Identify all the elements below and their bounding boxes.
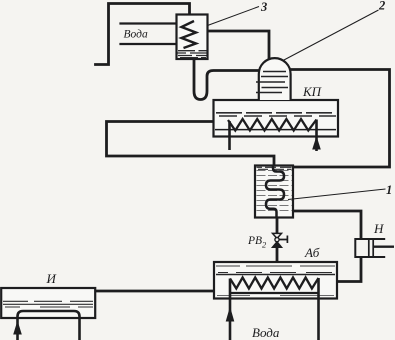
inverted-U tube in evaporator bbox=[18, 311, 80, 340]
arrow up into KP coil bbox=[312, 136, 321, 150]
svg-text:Вода: Вода bbox=[124, 29, 148, 41]
heat exchanger 3 (water-cooled condenser-rectifier) bbox=[177, 15, 208, 60]
coil left end stub pipe of KP bbox=[228, 121, 231, 150]
wire: pipe from valve to absorber top bbox=[276, 247, 279, 262]
arrow up into absorber coil bbox=[226, 307, 235, 322]
wire: vapor pipe from exchanger 3 right side into dome top bbox=[208, 31, 270, 60]
regulating valve PB2 bbox=[272, 233, 287, 247]
separator dome 2 on KP bbox=[256, 58, 291, 100]
leader line to label 3 bbox=[208, 7, 260, 26]
svg-text:Н: Н bbox=[373, 221, 384, 236]
shading line top of absorber bbox=[216, 265, 335, 267]
liquid level hatched line of absorber bbox=[216, 274, 335, 276]
svg-text:3: 3 bbox=[260, 0, 267, 14]
wire: U-trap from exchanger 3 bottom to condenser dome bbox=[194, 59, 259, 100]
wire: pipe from pump bottom down and left into absorber right side bbox=[337, 257, 361, 282]
svg-text:2: 2 bbox=[378, 0, 385, 13]
shading line bottom of absorber bbox=[217, 295, 334, 297]
svg-text:И: И bbox=[46, 271, 57, 286]
leader line to label 2 bbox=[283, 10, 379, 61]
svg-text:Вода: Вода bbox=[252, 325, 280, 340]
horizontal shading lines in exchanger 1 bbox=[257, 171, 292, 211]
hatched top band of exchanger 1 bbox=[257, 167, 292, 169]
exchanger 1 (generator) bbox=[255, 165, 293, 218]
arrow up on evaporator left leg bbox=[13, 321, 22, 335]
absorber coil right pipe down (water outlet) bbox=[317, 278, 320, 340]
cooling coil of absorber (zigzag) bbox=[230, 278, 319, 289]
wire: long pipe from evaporator to absorber bbox=[95, 290, 214, 293]
pump piston rod bbox=[374, 245, 394, 247]
leader line to label 1 bbox=[288, 189, 386, 200]
coil support line in KP bbox=[215, 129, 336, 131]
wire: pipe from exchanger 1 bottom to valve bbox=[276, 218, 279, 234]
coil right end pipe of KP (water inlet) bbox=[315, 120, 318, 152]
condenser KP vessel bbox=[214, 100, 339, 151]
svg-text:РВ: РВ bbox=[247, 235, 262, 247]
wire: pipe from exchanger 1 right to pump top bbox=[293, 211, 361, 239]
valve handle bbox=[279, 236, 287, 244]
pump N bbox=[355, 239, 394, 257]
evaporator vessel I bbox=[1, 288, 95, 340]
pump piston bbox=[369, 239, 373, 257]
cooling coil of KP (zigzag) bbox=[228, 119, 317, 131]
serpentine coil of exchanger 1 bbox=[266, 165, 284, 218]
svg-text:1: 1 bbox=[386, 183, 392, 197]
wire: water outlet line from exchanger 3 bbox=[121, 43, 177, 45]
wire: water inlet line to exchanger 3 bbox=[121, 22, 177, 24]
shading lines in evaporator bbox=[3, 301, 93, 304]
absorber coil left pipe down (water inlet) bbox=[229, 279, 232, 340]
wire: top pipe from exchanger 3 up, left and down to open stub bbox=[96, 4, 190, 65]
absorber vessel Ab bbox=[214, 262, 337, 340]
svg-text:Аб: Аб bbox=[304, 245, 320, 260]
wire: pipe from dome right to right-side drop into exchanger 1 bbox=[291, 70, 390, 168]
liquid surface shading in KP bbox=[216, 112, 336, 114]
packing shading lines inside dome bbox=[256, 72, 288, 93]
lower header line of absorber bbox=[230, 292, 319, 294]
wire: pipe from KP vessel left, around left detour, into exchanger 1 top bbox=[107, 122, 275, 167]
liquid shading band of exchanger 3 bbox=[178, 51, 207, 53]
coil of exchanger 3 bbox=[182, 21, 197, 48]
svg-text:КП: КП bbox=[302, 84, 323, 99]
